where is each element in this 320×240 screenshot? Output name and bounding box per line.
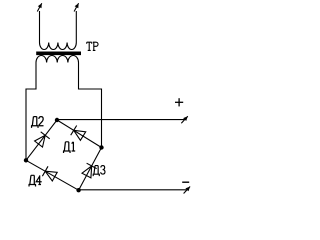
node + junction dot (top bridge corner) [55,118,59,122]
transformer TP primary winding [40,43,77,50]
negative terminal arrow [184,187,191,194]
positive terminal arrow [181,116,188,123]
AC input arrow right [74,3,79,11]
wire: positive output (crosses node B lead, no connection) [57,119,185,121]
wire: AC primary right lead [75,11,77,43]
node - junction dot (bottom bridge corner) [76,188,80,192]
diode Д3 (- node to node B) [79,148,102,191]
label + [175,98,183,106]
label Д4 [28,175,41,186]
label Д2 [31,117,44,128]
AC input arrow left [37,3,42,11]
diode Д2 (node A to + node) [26,120,57,160]
wire: negative output [79,189,188,191]
wire: AC primary left lead [39,11,41,43]
label - (minus) [182,181,189,183]
node A junction dot (left bridge corner) [24,158,28,162]
node B junction dot (right bridge corner) [99,145,103,149]
transformer TP core [36,51,81,55]
wire: secondary right lead to node B [79,63,102,148]
diode Д1 (node B to + node) [57,120,102,148]
label Д1 [63,142,75,153]
transformer TP secondary winding [36,55,79,62]
diode Д4 (- node to node A) [26,160,79,190]
label TP [87,42,98,50]
wire: secondary left lead to node A [26,63,36,161]
label Д3 [93,166,105,177]
